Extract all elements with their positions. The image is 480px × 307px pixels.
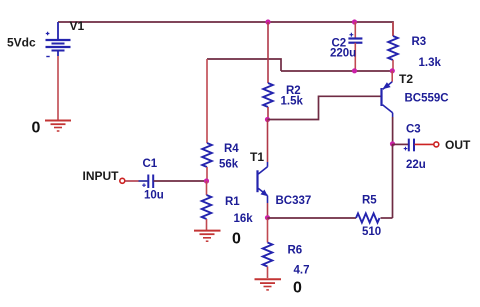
label 1.5k: [281, 96, 304, 108]
node junction top at C2: [352, 19, 357, 24]
node base junction: [204, 178, 209, 183]
node C2 bottom junction: [352, 68, 357, 73]
label C3: [406, 124, 421, 136]
wire battery to ground: [57, 56, 59, 120]
node emitter junction T2: [390, 68, 395, 73]
label BC337: [276, 195, 312, 207]
ground 0 left: [45, 121, 71, 132]
svg-text:1.5k: 1.5k: [281, 96, 304, 108]
node collector junction T1: [265, 117, 270, 122]
label R4: [224, 143, 239, 155]
wire T2 base path: [268, 96, 381, 119]
svg-text:INPUT: INPUT: [83, 169, 120, 183]
label 0 middle: [232, 231, 241, 248]
capacitor C2: [348, 22, 362, 71]
node INPUT terminal: [120, 178, 125, 183]
wire R4 top feed: [207, 59, 281, 71]
resistor R2: [263, 22, 273, 120]
svg-text:0: 0: [293, 280, 302, 297]
svg-text:0: 0: [32, 120, 41, 137]
label 5Vdc: [7, 36, 36, 50]
label 1.3k: [419, 57, 442, 69]
svg-text:R1: R1: [225, 196, 240, 208]
wire INPUT to C1: [125, 180, 147, 182]
wire top rail V1 to R3: [58, 22, 393, 36]
svg-text:R5: R5: [362, 195, 377, 207]
wire emitter to R5: [268, 217, 357, 219]
svg-text:4.7: 4.7: [294, 265, 310, 277]
svg-text:0: 0: [232, 231, 241, 248]
svg-text:OUT: OUT: [445, 138, 471, 152]
capacitor C3: [393, 139, 434, 152]
svg-text:C1: C1: [143, 158, 158, 170]
resistor R6: [263, 218, 273, 278]
label C1: [143, 158, 158, 170]
label R6: [288, 245, 303, 257]
svg-text:10u: 10u: [144, 190, 164, 202]
label R2: [286, 85, 301, 97]
label 56k: [219, 159, 239, 171]
svg-text:BC559C: BC559C: [405, 93, 449, 105]
svg-text:220u: 220u: [330, 48, 356, 60]
svg-text:V1: V1: [70, 19, 85, 33]
label C2: [332, 38, 347, 50]
label 0 right: [293, 280, 302, 297]
svg-text:16k: 16k: [234, 213, 254, 225]
label T2: [399, 72, 413, 86]
label 510: [362, 226, 381, 238]
svg-text:510: 510: [362, 226, 381, 238]
label 22u: [406, 159, 426, 171]
label INPUT: [83, 169, 120, 183]
battery V1: [46, 22, 71, 57]
label R3: [412, 36, 427, 48]
ground 0 middle: [194, 231, 221, 242]
svg-text:R3: R3: [412, 36, 427, 48]
label R5: [362, 195, 377, 207]
label 16k: [234, 213, 254, 225]
label 4.7: [294, 265, 310, 277]
transistor T1: [258, 120, 268, 218]
svg-text:1.3k: 1.3k: [419, 57, 442, 69]
svg-text:22u: 22u: [406, 159, 426, 171]
wire R5 riser to C3 node: [392, 144, 394, 218]
label 10u: [144, 190, 164, 202]
resistor R5: [356, 213, 393, 222]
transistor T2: [382, 71, 393, 117]
label BC559C: [405, 93, 449, 105]
label R1: [225, 196, 240, 208]
wire T2 collector to C3 node: [392, 117, 394, 144]
resistor R1: [202, 181, 212, 231]
svg-text:R4: R4: [224, 143, 239, 155]
resistor R4: [202, 59, 212, 181]
label V1: [70, 19, 85, 33]
ground 0 right: [255, 279, 282, 290]
svg-text:BC337: BC337: [276, 195, 312, 207]
label OUT: [445, 138, 471, 152]
svg-text:T2: T2: [399, 72, 413, 86]
svg-text:C3: C3: [406, 124, 421, 136]
node junction top at R2 column: [265, 19, 270, 24]
wire bootstrap rail y71: [281, 70, 393, 72]
svg-text:56k: 56k: [219, 159, 239, 171]
wire C1 to base node: [154, 180, 207, 182]
resistor R3: [388, 22, 398, 71]
node C3 junction: [390, 141, 395, 146]
label T1: [250, 150, 264, 164]
label 0 left: [32, 120, 41, 137]
label 220u: [330, 48, 356, 60]
capacitor C1: [142, 175, 153, 189]
svg-text:5Vdc: 5Vdc: [7, 36, 36, 50]
node OUT terminal: [434, 142, 439, 147]
node emitter junction T1: [265, 215, 270, 220]
svg-text:R6: R6: [288, 245, 303, 257]
svg-text:T1: T1: [250, 150, 264, 164]
